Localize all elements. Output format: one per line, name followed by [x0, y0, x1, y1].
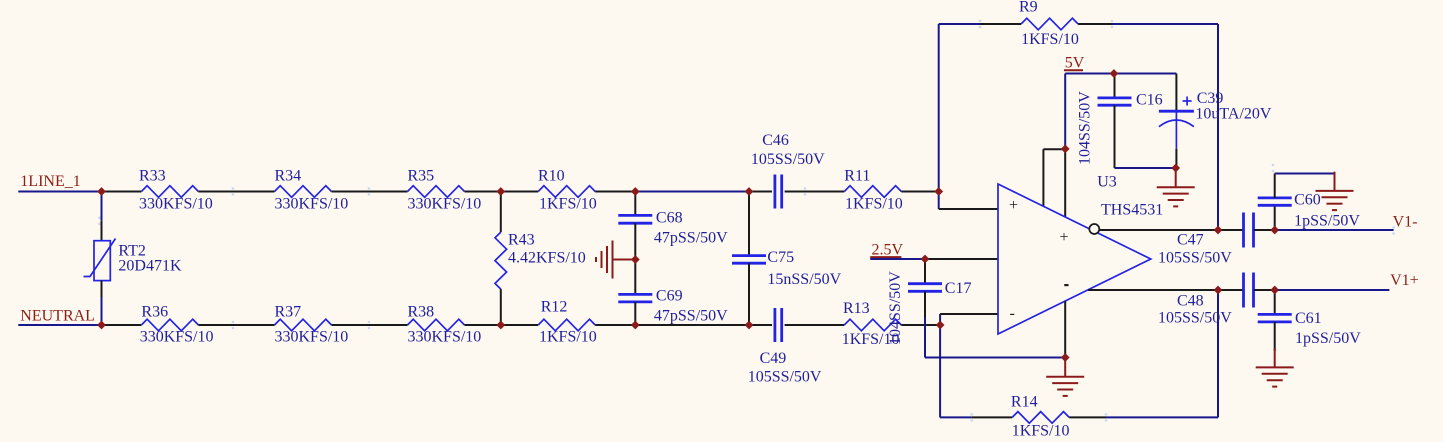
svg-text:1KFS/10: 1KFS/10 — [539, 196, 597, 213]
svg-text:1KFS/10: 1KFS/10 — [845, 196, 903, 213]
svg-text:C48: C48 — [1177, 293, 1204, 310]
svg-text:47pSS/50V: 47pSS/50V — [654, 308, 728, 325]
svg-text:R10: R10 — [538, 168, 565, 185]
svg-text:U3: U3 — [1097, 174, 1117, 191]
svg-text:C61: C61 — [1295, 310, 1322, 327]
svg-text:1LINE_1: 1LINE_1 — [20, 173, 80, 190]
svg-text:47pSS/50V: 47pSS/50V — [654, 230, 728, 247]
svg-text:R13: R13 — [843, 300, 870, 317]
svg-text:R34: R34 — [275, 168, 302, 185]
svg-text:104SS/50V: 104SS/50V — [887, 271, 904, 345]
svg-text:R12: R12 — [541, 299, 568, 316]
svg-text:NEUTRAL: NEUTRAL — [20, 308, 95, 325]
svg-text:330KFS/10: 330KFS/10 — [275, 329, 349, 346]
svg-text:C46: C46 — [762, 132, 789, 149]
svg-text:R9: R9 — [1019, 0, 1038, 16]
svg-text:105SS/50V: 105SS/50V — [751, 151, 825, 168]
svg-text:330KFS/10: 330KFS/10 — [140, 329, 214, 346]
svg-text:330KFS/10: 330KFS/10 — [275, 196, 349, 213]
svg-text:330KFS/10: 330KFS/10 — [408, 329, 482, 346]
svg-text:5V: 5V — [1065, 55, 1085, 72]
svg-text:C17: C17 — [945, 280, 972, 297]
svg-text:2.5V: 2.5V — [872, 242, 904, 259]
svg-text:105SS/50V: 105SS/50V — [748, 369, 822, 386]
svg-text:V1+: V1+ — [1390, 272, 1419, 289]
svg-text:R36: R36 — [141, 304, 168, 321]
svg-text:-: - — [1010, 305, 1015, 322]
svg-text:R35: R35 — [408, 168, 435, 185]
svg-text:THS4531: THS4531 — [1101, 202, 1163, 219]
svg-text:C68: C68 — [656, 210, 683, 227]
svg-text:104SS/50V: 104SS/50V — [1077, 91, 1094, 165]
svg-text:1KFS/10: 1KFS/10 — [1021, 31, 1079, 48]
svg-text:1KFS/10: 1KFS/10 — [1012, 423, 1070, 440]
svg-text:C16: C16 — [1136, 92, 1163, 109]
svg-text:1pSS/50V: 1pSS/50V — [1295, 330, 1361, 347]
svg-text:C75: C75 — [767, 249, 794, 266]
svg-text:4.42KFS/10: 4.42KFS/10 — [508, 250, 586, 267]
svg-text:R38: R38 — [408, 304, 435, 321]
svg-text:330KFS/10: 330KFS/10 — [408, 196, 482, 213]
svg-text:R11: R11 — [844, 168, 870, 185]
svg-text:10uTA/20V: 10uTA/20V — [1195, 106, 1271, 123]
svg-text:+: + — [1009, 197, 1018, 214]
svg-text:R43: R43 — [508, 232, 535, 249]
svg-text:R14: R14 — [1011, 393, 1038, 410]
svg-text:C60: C60 — [1294, 192, 1321, 209]
svg-text:C69: C69 — [656, 288, 683, 305]
svg-text:15nSS/50V: 15nSS/50V — [767, 271, 841, 288]
svg-text:C49: C49 — [760, 350, 787, 367]
svg-text:V1-: V1- — [1393, 214, 1418, 231]
svg-text:105SS/50V: 105SS/50V — [1158, 310, 1232, 327]
svg-text:+: + — [1060, 229, 1069, 246]
svg-text:C39: C39 — [1197, 90, 1224, 107]
svg-text:20D471K: 20D471K — [118, 258, 182, 275]
svg-text:R33: R33 — [139, 168, 166, 185]
svg-text:330KFS/10: 330KFS/10 — [139, 196, 213, 213]
svg-text:105SS/50V: 105SS/50V — [1158, 250, 1232, 267]
svg-text:C47: C47 — [1177, 232, 1204, 249]
svg-text:R37: R37 — [275, 304, 302, 321]
svg-text:1pSS/50V: 1pSS/50V — [1294, 213, 1360, 230]
svg-text:1KFS/10: 1KFS/10 — [539, 329, 597, 346]
